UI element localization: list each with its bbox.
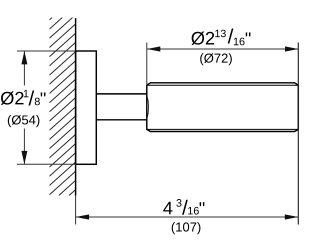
dimension 4 3/16: left arrow (76, 214, 90, 219)
dimension Ø2 13/16: left arrow (147, 46, 160, 51)
label (Ø54) (8, 115, 40, 127)
dimension Ø2 1/8: bottom extension line (17, 163, 76, 165)
dimension Ø2 1/8: down arrow (21, 151, 27, 164)
wall hatching (49, 18, 75, 196)
label 4 3/16 inch (163, 199, 204, 215)
dimension Ø2 1/8: dimension line lower segment (23, 129, 25, 165)
dimension Ø2 13/16: dimension line (147, 48, 298, 50)
wall edge (75, 18, 77, 195)
escutcheon (wall plate) (76, 51, 97, 164)
neck (mounting post) (96, 94, 147, 120)
label Ø2 1/8 inch (1, 90, 46, 106)
cylinder left face arc (147, 96, 149, 120)
label (Ø72) (200, 53, 232, 65)
dimension Ø2 1/8: dimension line upper segment (23, 51, 25, 86)
dimension Ø2 1/8: top extension line (17, 50, 76, 52)
label (107) (172, 222, 201, 234)
cylinder chamfer edge lines (147, 85, 298, 129)
dimension 4 3/16: left extension line (wall edge continuation) (75, 196, 77, 225)
dimension Ø2 13/16: left extension line (146, 43, 148, 86)
dimension 4 3/16: dimension line (76, 216, 299, 218)
label Ø2 13/16 inch (191, 28, 250, 45)
dimension 4 3/16: right arrow (285, 214, 299, 219)
dimension Ø2 13/16: right extension / cylinder right edge line (297, 43, 299, 225)
dimension Ø2 13/16: right arrow (285, 46, 298, 51)
holder cylinder body (147, 83, 298, 132)
dimension Ø2 1/8: up arrow (21, 51, 27, 64)
